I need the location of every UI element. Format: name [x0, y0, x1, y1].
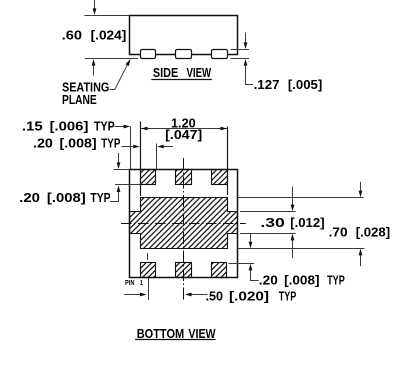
top pad bottom edge extension left	[115, 184, 140, 186]
title BOTTOM VIEW	[135, 326, 216, 341]
lead pad 2 (side view)	[176, 50, 192, 59]
dimension .30 up arrow	[291, 234, 295, 258]
extension line pad1 left above	[140, 122, 142, 197]
svg-text:SIDE: SIDE	[153, 65, 179, 80]
dimension text .15 [.006] TYP with arrow	[22, 119, 130, 134]
package body (side view)	[130, 16, 238, 55]
dimension text 1.20 [.047]	[165, 116, 202, 143]
extension line pad1 right above	[156, 144, 158, 170]
svg-text:PLANE: PLANE	[62, 92, 97, 107]
svg-text:VIEW: VIEW	[187, 65, 212, 80]
svg-text:TYP: TYP	[90, 190, 110, 205]
dimension .60 up arrow	[92, 59, 96, 76]
package outline (bottom view)	[130, 170, 238, 278]
seating plane leader arrow	[110, 59, 131, 90]
dimension .70 down arrow	[359, 182, 363, 197]
dimension .60 down arrow	[93, 0, 97, 15]
svg-text:[.012]: [.012]	[290, 215, 324, 230]
svg-text:.70: .70	[329, 225, 348, 240]
seating plane line	[85, 58, 138, 60]
svg-text:TYP: TYP	[279, 288, 297, 303]
svg-text:.30: .30	[260, 215, 284, 230]
dimension .127 down arrow	[244, 33, 248, 50]
dimension 1.20 line with arrows	[141, 127, 228, 131]
gap dimension up arrow with elbow	[249, 264, 259, 281]
svg-text:[.008]: [.008]	[47, 190, 86, 205]
vertical centerline	[183, 158, 185, 302]
bottom pad 2 (hatched)	[176, 263, 192, 278]
dimension .50 left-pointing arrow	[185, 293, 208, 297]
svg-text:.15: .15	[22, 119, 43, 134]
svg-text:PIN: PIN	[125, 278, 135, 287]
extension line band bottom right	[240, 233, 296, 235]
svg-text:[.020]: [.020]	[229, 288, 269, 303]
horizontal centerline	[121, 223, 246, 225]
svg-text:.20: .20	[33, 136, 53, 151]
svg-text:TYP: TYP	[101, 136, 120, 151]
.127 upper extension line	[231, 49, 250, 51]
dimension .70 up arrow	[359, 249, 363, 266]
extension segment pad1 center above bottom pads	[147, 253, 149, 260]
svg-text:[.006]: [.006]	[50, 119, 89, 134]
svg-text:[.008]: [.008]	[60, 136, 97, 151]
pad width left-pointing arrow	[157, 145, 173, 149]
body top edge extension left	[84, 15, 129, 17]
svg-text:[.047]: [.047]	[165, 127, 202, 142]
.127 lower extension line	[231, 58, 250, 60]
svg-text:TYP: TYP	[327, 272, 345, 287]
svg-text:VIEW: VIEW	[188, 326, 216, 341]
extension line bottom pad top right	[229, 263, 255, 265]
extension line center pad bottom right	[238, 248, 365, 250]
extension line pad3 right above	[227, 127, 229, 196]
gap dimension down arrow	[249, 234, 253, 249]
dimension text .20 [.008] TYP (pad width) with arrow	[33, 136, 140, 151]
svg-text:BOTTOM: BOTTOM	[137, 326, 185, 341]
svg-text:.60: .60	[62, 28, 82, 43]
top pad 3 (hatched)	[212, 170, 228, 185]
label SEATING PLANE	[62, 79, 109, 107]
extension line center pad top right	[238, 197, 364, 199]
bottom pad 3 (hatched)	[212, 263, 227, 278]
svg-text:.127: .127	[254, 77, 280, 92]
svg-text:[.005]: [.005]	[288, 77, 322, 92]
extension line package left above	[130, 126, 132, 169]
dimension .127 up arrow with elbow leader	[244, 59, 253, 85]
lead pad 3 (side view)	[212, 50, 228, 59]
pad height up arrow with elbow	[110, 185, 120, 201]
svg-text:.20: .20	[259, 272, 278, 287]
dimension .50 right-pointing arrow	[124, 293, 146, 297]
extension line pad1 center below	[148, 278, 150, 300]
pad height down arrow	[117, 153, 121, 169]
svg-text:.20: .20	[19, 190, 40, 205]
package top edge extension left	[113, 169, 129, 171]
svg-text:.50: .50	[206, 288, 224, 303]
top pad 2 (hatched)	[176, 170, 192, 185]
extension line band top right	[240, 211, 296, 213]
bottom pad 1 (hatched)	[141, 263, 156, 278]
svg-text:TYP: TYP	[94, 119, 115, 134]
svg-text:[.028]: [.028]	[356, 225, 390, 240]
svg-text:[.008]: [.008]	[284, 272, 319, 287]
dimension .30 down arrow	[291, 187, 295, 212]
lead pad 1 (side view)	[141, 50, 156, 59]
center pad (exposed pad, hatched)	[130, 198, 238, 249]
top pad 1 (hatched)	[141, 170, 156, 185]
svg-text:[.024]: [.024]	[91, 28, 127, 43]
title SIDE VIEW	[151, 65, 212, 80]
